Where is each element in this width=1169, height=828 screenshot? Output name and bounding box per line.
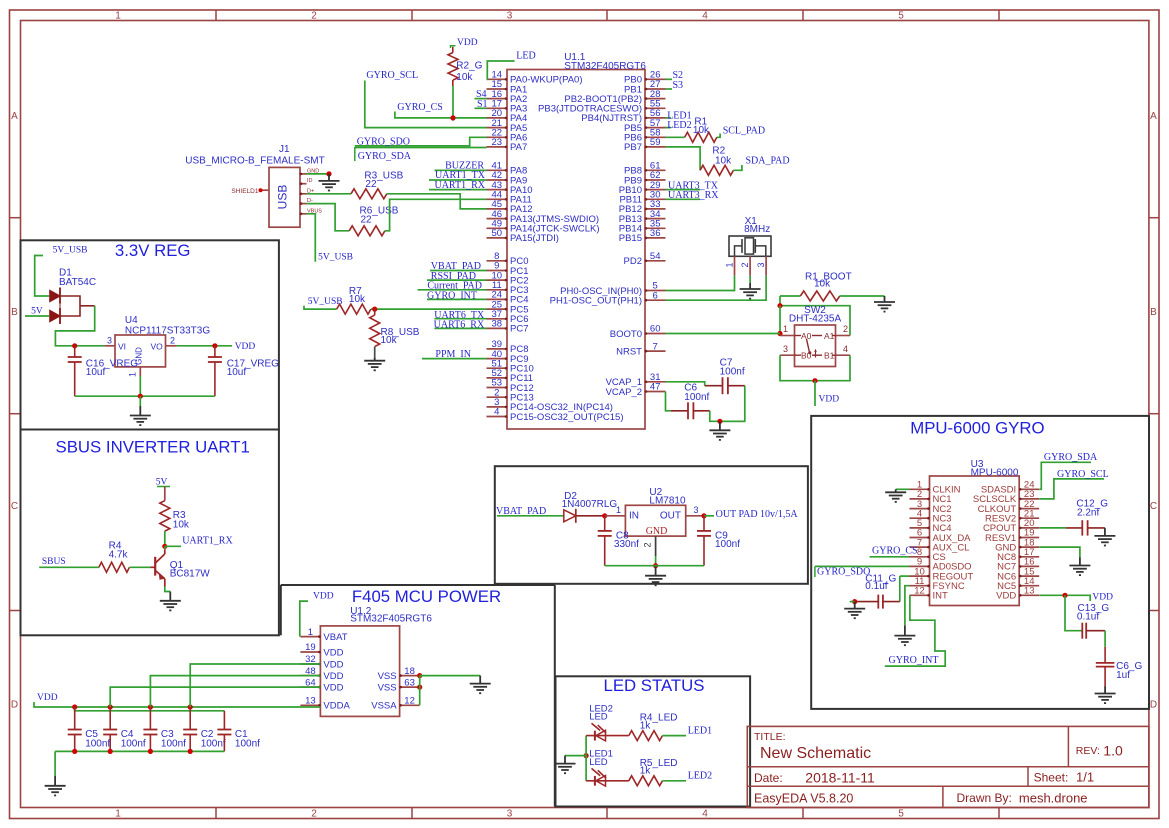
svg-text:5V_USB: 5V_USB	[308, 297, 343, 307]
svg-text:1k: 1k	[640, 766, 652, 777]
svg-text:UART1_RX: UART1_RX	[434, 180, 485, 191]
svg-text:2: 2	[311, 11, 317, 22]
svg-text:MPU-6000 GYRO: MPU-6000 GYRO	[910, 419, 1044, 438]
svg-text:SBUS: SBUS	[42, 557, 66, 567]
svg-text:VO: VO	[151, 342, 164, 352]
svg-text:100nf: 100nf	[235, 739, 260, 750]
svg-text:VI: VI	[118, 342, 126, 352]
svg-text:SHIELD1: SHIELD1	[231, 188, 258, 195]
svg-text:SDA_PAD: SDA_PAD	[746, 155, 790, 166]
svg-text:3: 3	[507, 11, 513, 22]
svg-text:VSS: VSS	[378, 682, 397, 693]
svg-text:USB_MICRO-B_FEMALE-SMT: USB_MICRO-B_FEMALE-SMT	[185, 156, 324, 167]
svg-text:UART1_RX: UART1_RX	[182, 535, 233, 546]
svg-text:2: 2	[311, 809, 317, 820]
svg-text:A: A	[11, 111, 18, 122]
svg-text:PH1-OSC_OUT(PH1): PH1-OSC_OUT(PH1)	[550, 296, 642, 307]
svg-text:PD2: PD2	[624, 256, 642, 267]
svg-text:1uf: 1uf	[1116, 670, 1130, 681]
svg-text:GYRO_SDO: GYRO_SDO	[357, 136, 410, 147]
svg-text:VDD: VDD	[313, 592, 334, 602]
svg-text:S1: S1	[477, 99, 488, 110]
svg-text:3: 3	[783, 344, 788, 354]
svg-text:GYRO_SDA: GYRO_SDA	[358, 151, 412, 162]
svg-text:10k: 10k	[381, 335, 398, 346]
svg-text:D-: D-	[307, 198, 313, 204]
svg-text:13: 13	[305, 696, 316, 707]
svg-text:2: 2	[740, 262, 750, 267]
svg-text:23: 23	[492, 137, 503, 148]
svg-text:10k: 10k	[693, 125, 710, 136]
svg-text:1N4007RLG: 1N4007RLG	[562, 499, 618, 510]
svg-text:22: 22	[365, 179, 377, 190]
svg-text:0.1uf: 0.1uf	[865, 581, 887, 592]
svg-text:GYRO_CS: GYRO_CS	[872, 546, 918, 557]
svg-text:10k: 10k	[715, 155, 732, 166]
svg-text:PB15: PB15	[619, 233, 642, 244]
svg-text:GYRO_SDO: GYRO_SDO	[817, 566, 870, 577]
svg-text:PC15-OSC32_OUT(PC15): PC15-OSC32_OUT(PC15)	[510, 412, 624, 423]
svg-text:B: B	[11, 307, 18, 318]
svg-text:3: 3	[756, 262, 766, 267]
svg-text:GYRO_INT: GYRO_INT	[889, 655, 939, 666]
svg-text:10k: 10k	[349, 294, 366, 305]
svg-text:STM32F405RGT6: STM32F405RGT6	[350, 614, 432, 625]
svg-text:PA7: PA7	[510, 142, 527, 153]
svg-text:100nf: 100nf	[85, 739, 110, 750]
svg-text:1: 1	[128, 372, 138, 377]
svg-text:TITLE:: TITLE:	[754, 731, 786, 743]
svg-text:63: 63	[404, 677, 415, 688]
svg-text:5: 5	[898, 11, 904, 22]
svg-text:1: 1	[308, 627, 313, 638]
svg-text:LED: LED	[589, 757, 608, 768]
svg-text:5V_USB: 5V_USB	[318, 252, 353, 262]
svg-text:100nf: 100nf	[201, 739, 226, 750]
svg-text:1: 1	[724, 262, 734, 267]
svg-text:59: 59	[650, 137, 661, 148]
svg-text:10k: 10k	[456, 72, 473, 83]
svg-text:0.1uf: 0.1uf	[1077, 612, 1099, 623]
svg-text:3: 3	[107, 335, 112, 345]
svg-text:100nf: 100nf	[720, 366, 745, 377]
svg-text:4: 4	[702, 809, 708, 820]
svg-text:10uf: 10uf	[86, 367, 106, 378]
svg-text:2: 2	[643, 542, 653, 547]
svg-text:VDD: VDD	[37, 693, 58, 703]
svg-text:STM32F405RGT6: STM32F405RGT6	[564, 61, 646, 72]
svg-text:4.7k: 4.7k	[109, 549, 129, 560]
svg-text:19: 19	[305, 642, 316, 653]
svg-text:1: 1	[115, 11, 121, 22]
svg-text:VDDA: VDDA	[323, 701, 350, 712]
svg-text:330nf: 330nf	[614, 539, 639, 550]
svg-text:10k: 10k	[814, 278, 831, 289]
svg-text:VCAP_2: VCAP_2	[606, 387, 642, 398]
svg-text:12: 12	[914, 586, 925, 597]
svg-text:NCP1117ST33T3G: NCP1117ST33T3G	[125, 325, 210, 336]
svg-text:Date:: Date:	[754, 771, 783, 785]
svg-text:VDD: VDD	[323, 682, 343, 693]
svg-text:OUT: OUT	[660, 510, 681, 521]
svg-text:VDD: VDD	[1092, 592, 1113, 602]
svg-text:D: D	[1150, 700, 1157, 711]
svg-text:100nf: 100nf	[684, 392, 709, 403]
svg-text:18: 18	[404, 666, 415, 677]
svg-text:D: D	[11, 700, 18, 711]
svg-text:S3: S3	[673, 80, 684, 91]
svg-text:EasyEDA V5.8.20: EasyEDA V5.8.20	[754, 792, 853, 806]
svg-text:VDD: VDD	[819, 395, 840, 405]
svg-text:4: 4	[494, 407, 499, 418]
svg-text:GYRO_SCL: GYRO_SCL	[1057, 469, 1109, 480]
svg-text:1.0: 1.0	[1103, 743, 1123, 759]
svg-text:36: 36	[650, 228, 661, 239]
svg-text:J1: J1	[279, 144, 290, 155]
svg-text:LED: LED	[516, 51, 535, 62]
svg-text:mesh.drone: mesh.drone	[1019, 791, 1088, 806]
svg-text:4: 4	[843, 344, 848, 354]
svg-text:VDD: VDD	[323, 647, 343, 658]
svg-text:54: 54	[650, 251, 661, 262]
svg-text:1k: 1k	[640, 720, 652, 731]
svg-text:6: 6	[653, 290, 658, 301]
svg-text:VDD: VDD	[457, 38, 478, 48]
svg-text:GYRO_CS: GYRO_CS	[397, 102, 443, 113]
svg-text:50: 50	[492, 228, 503, 239]
svg-text:100nf: 100nf	[161, 739, 186, 750]
svg-text:LED STATUS: LED STATUS	[603, 676, 704, 695]
svg-text:VDD: VDD	[235, 342, 256, 352]
svg-text:10k: 10k	[173, 520, 190, 531]
svg-text:10uf: 10uf	[227, 367, 247, 378]
svg-text:C: C	[1150, 501, 1157, 512]
svg-text:47: 47	[650, 382, 661, 393]
svg-text:A1: A1	[824, 331, 835, 341]
svg-text:USB: USB	[276, 185, 290, 210]
svg-text:BOOT0: BOOT0	[610, 329, 642, 340]
svg-text:VSS: VSS	[378, 671, 397, 682]
svg-text:LED2: LED2	[667, 120, 691, 131]
svg-text:3: 3	[694, 505, 699, 515]
svg-text:3: 3	[507, 809, 513, 820]
svg-text:OUT PAD 10v/1,5A: OUT PAD 10v/1,5A	[716, 509, 799, 520]
svg-text:1: 1	[783, 324, 788, 334]
svg-text:PB7: PB7	[624, 142, 642, 153]
svg-text:LM7810: LM7810	[649, 495, 686, 506]
svg-text:NRST: NRST	[616, 346, 642, 357]
svg-text:LED1: LED1	[688, 725, 712, 736]
svg-text:4: 4	[702, 11, 708, 22]
svg-text:100nf: 100nf	[715, 539, 740, 550]
svg-text:PC7: PC7	[510, 324, 528, 335]
svg-text:PA15(JTDI): PA15(JTDI)	[510, 233, 559, 244]
svg-text:1: 1	[616, 505, 621, 515]
svg-text:BAT54C: BAT54C	[59, 277, 96, 288]
svg-text:GND: GND	[646, 526, 668, 537]
svg-text:VBAT: VBAT	[323, 632, 347, 643]
svg-text:R2_G: R2_G	[456, 61, 482, 72]
svg-text:REV:: REV:	[1076, 745, 1100, 757]
svg-text:MPU-6000: MPU-6000	[971, 468, 1019, 479]
svg-text:LED: LED	[589, 712, 608, 723]
svg-text:SBUS INVERTER UART1: SBUS INVERTER UART1	[56, 438, 250, 457]
svg-text:8MHz: 8MHz	[744, 224, 770, 235]
svg-text:5V_USB: 5V_USB	[53, 246, 88, 256]
svg-text:7: 7	[653, 341, 658, 352]
svg-text:DHT-4235A: DHT-4235A	[789, 314, 842, 325]
svg-text:VDD: VDD	[996, 591, 1016, 602]
svg-text:1/1: 1/1	[1076, 770, 1094, 785]
svg-text:VSSA: VSSA	[371, 701, 397, 712]
svg-text:22: 22	[361, 215, 373, 226]
svg-text:ID: ID	[307, 178, 313, 184]
svg-text:D+: D+	[307, 188, 314, 194]
svg-text:2: 2	[843, 324, 848, 334]
svg-text:LED2: LED2	[688, 771, 712, 782]
svg-text:Drawn By:: Drawn By:	[957, 791, 1012, 805]
svg-text:13: 13	[1024, 586, 1035, 597]
svg-text:B1: B1	[824, 351, 835, 361]
svg-text:3.3V REG: 3.3V REG	[115, 241, 191, 260]
svg-text:100nf: 100nf	[121, 739, 146, 750]
svg-text:SCL_PAD: SCL_PAD	[723, 126, 765, 137]
svg-text:GYRO_SCL: GYRO_SCL	[366, 70, 418, 81]
svg-text:F405 MCU POWER: F405 MCU POWER	[352, 587, 501, 606]
svg-text:5: 5	[898, 809, 904, 820]
svg-text:New Schematic: New Schematic	[760, 745, 871, 762]
svg-text:60: 60	[650, 324, 661, 335]
svg-text:1: 1	[115, 809, 121, 820]
svg-text:Sheet:: Sheet:	[1034, 770, 1069, 784]
svg-text:A: A	[1150, 111, 1157, 122]
svg-text:2: 2	[170, 335, 175, 345]
svg-text:2018-11-11: 2018-11-11	[805, 769, 875, 785]
svg-text:UART3_RX: UART3_RX	[668, 190, 719, 201]
svg-text:C: C	[11, 501, 18, 512]
svg-text:VDD: VDD	[323, 671, 343, 682]
svg-text:B: B	[1150, 307, 1157, 318]
svg-text:BC817W: BC817W	[170, 569, 211, 580]
svg-text:38: 38	[492, 319, 503, 330]
svg-text:VDD: VDD	[323, 659, 343, 670]
svg-text:INT: INT	[933, 591, 949, 602]
svg-text:IN: IN	[629, 510, 639, 521]
svg-text:12: 12	[404, 696, 415, 707]
svg-text:2.2nf: 2.2nf	[1077, 508, 1099, 519]
svg-text:GYRO_SDA: GYRO_SDA	[1044, 452, 1098, 463]
